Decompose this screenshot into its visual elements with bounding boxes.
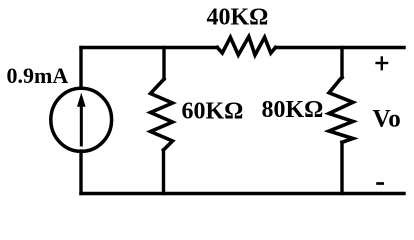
resistor R1 40KΩ (zigzag) xyxy=(217,37,275,55)
wire top-left segment xyxy=(81,46,217,49)
resistor R3 80KΩ (zigzag) xyxy=(329,78,353,143)
minus sign (-) xyxy=(376,182,384,185)
svg-text:60KΩ: 60KΩ xyxy=(182,99,244,125)
wire left vertical upper xyxy=(79,48,82,89)
wire left vertical lower xyxy=(79,151,82,194)
svg-text:0.9mA: 0.9mA xyxy=(7,63,69,88)
wire right vertical lower xyxy=(340,142,343,193)
svg-text:40KΩ: 40KΩ xyxy=(207,5,269,31)
svg-text:80KΩ: 80KΩ xyxy=(262,97,324,123)
wire middle vertical upper xyxy=(162,48,165,80)
resistor R2 60KΩ (zigzag) xyxy=(151,79,173,150)
current source I1 circle xyxy=(51,88,112,151)
wire bottom xyxy=(81,192,404,195)
svg-text:Vo: Vo xyxy=(373,106,401,133)
wire top-right segment xyxy=(276,46,405,49)
wire right vertical upper xyxy=(340,48,343,78)
wire middle vertical lower xyxy=(162,150,165,194)
plus sign (+) xyxy=(375,56,388,70)
current source I1 arrow xyxy=(77,93,86,147)
